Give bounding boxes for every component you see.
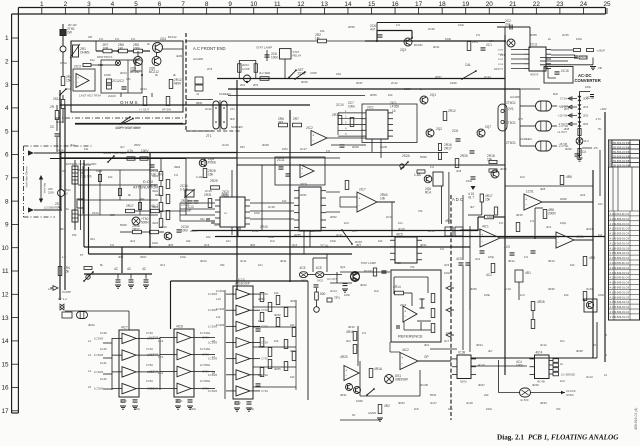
- svg-text:4R29: 4R29: [532, 383, 539, 387]
- svg-text:−: −: [404, 315, 406, 319]
- svg-text:4R11: 4R11: [280, 259, 287, 263]
- svg-text:4R31: 4R31: [340, 393, 347, 397]
- svg-text:1%: 1%: [499, 221, 504, 225]
- svg-text:2D8: 2D8: [564, 127, 570, 131]
- svg-text:2D2: 2D2: [240, 83, 246, 87]
- svg-text:4R7: 4R7: [356, 243, 362, 247]
- svg-text:2R51: 2R51: [300, 193, 307, 197]
- svg-text:HI: HI: [560, 362, 563, 366]
- svg-text:SCREEN: SCREEN: [520, 137, 532, 141]
- svg-text:100k: 100k: [133, 46, 140, 50]
- svg-text:4 119-513-01 C4: 4 119-513-01 C4: [610, 212, 630, 216]
- svg-text:4R35: 4R35: [470, 287, 477, 291]
- svg-text:1C4: 1C4: [158, 371, 164, 375]
- svg-text:2S1A: 2S1A: [60, 61, 67, 65]
- svg-text:2R30: 2R30: [460, 154, 468, 158]
- svg-text:1n: 1n: [420, 87, 424, 91]
- svg-text:9: 9: [5, 222, 9, 229]
- svg-text:4R32: 4R32: [398, 401, 405, 405]
- svg-text:4C2: 4C2: [475, 257, 481, 261]
- svg-text:1C39/8: 1C39/8: [208, 389, 217, 393]
- svg-text:4C20: 4C20: [586, 287, 593, 291]
- svg-text:10n: 10n: [352, 229, 357, 233]
- svg-text:1M: 1M: [598, 233, 603, 237]
- svg-text:A/D&DISP: A/D&DISP: [235, 282, 250, 286]
- svg-text:2C14: 2C14: [320, 244, 328, 248]
- svg-text:1%: 1%: [430, 165, 435, 169]
- svg-text:1C42: 1C42: [100, 377, 107, 381]
- svg-text:O H M S: O H M S: [120, 100, 138, 105]
- svg-text:2.2k 1%: 2.2k 1%: [80, 174, 92, 178]
- svg-text:2A5: 2A5: [48, 187, 53, 191]
- svg-text:4k99: 4k99: [174, 81, 181, 85]
- svg-text:+: +: [404, 309, 406, 313]
- svg-text:4R33: 4R33: [540, 401, 547, 405]
- svg-text:10k: 10k: [388, 93, 393, 97]
- svg-text:1C75A6: 1C75A6: [200, 363, 211, 367]
- svg-text:10R: 10R: [103, 46, 110, 50]
- svg-text:1C74A6: 1C74A6: [200, 347, 211, 351]
- svg-text:100n: 100n: [446, 331, 453, 335]
- svg-text:2R11: 2R11: [433, 45, 440, 49]
- svg-text:100n: 100n: [486, 407, 493, 411]
- svg-text:4R3: 4R3: [118, 255, 124, 259]
- svg-text:100p: 100p: [560, 221, 567, 225]
- svg-text:-2 OUT: -2 OUT: [558, 122, 567, 126]
- svg-text:4R8: 4R8: [540, 187, 546, 191]
- svg-text:1%: 1%: [362, 331, 367, 335]
- svg-text:4R10: 4R10: [200, 259, 207, 263]
- svg-text:63V: 63V: [240, 145, 245, 149]
- svg-text:C73A: C73A: [261, 357, 268, 361]
- svg-text:2R48: 2R48: [262, 143, 269, 147]
- svg-text:2W: 2W: [67, 30, 72, 34]
- svg-text:4IC8: 4IC8: [176, 325, 183, 329]
- svg-text:BC182: BC182: [364, 269, 373, 273]
- svg-text:100k: 100k: [96, 169, 103, 173]
- svg-text:5534: 5534: [430, 393, 437, 397]
- svg-text:+: +: [312, 134, 314, 138]
- svg-text:2R1: 2R1: [472, 40, 478, 44]
- svg-text:13: 13: [321, 1, 329, 8]
- svg-text:100n: 100n: [180, 255, 187, 259]
- svg-text:250V: 250V: [48, 190, 54, 194]
- svg-text:2R12: 2R12: [448, 109, 456, 113]
- svg-text:4C9: 4C9: [504, 245, 510, 249]
- svg-text:22: 22: [533, 1, 541, 8]
- svg-text:4C8: 4C8: [456, 169, 462, 173]
- svg-text:4 119-503-01 C4: 4 119-503-01 C4: [610, 227, 630, 231]
- svg-text:4C10: 4C10: [478, 363, 485, 367]
- svg-text:22k: 22k: [186, 239, 191, 243]
- svg-text:C74A: C74A: [146, 347, 153, 351]
- svg-text:4x 500: 4x 500: [520, 398, 529, 402]
- svg-text:4C1: 4C1: [160, 263, 166, 267]
- svg-text:4IC5: 4IC5: [396, 233, 403, 237]
- svg-text:1k0: 1k0: [520, 175, 525, 179]
- svg-text:L5: L5: [88, 385, 92, 389]
- svg-text:4: 4: [5, 105, 9, 112]
- svg-text:4R55: 4R55: [274, 367, 281, 371]
- svg-text:2W: 2W: [88, 35, 93, 39]
- svg-text:2D3: 2D3: [583, 97, 589, 101]
- svg-text:3: 3: [5, 82, 9, 89]
- svg-text:4: 4: [111, 1, 115, 8]
- svg-text:500R: 500R: [141, 220, 149, 224]
- svg-text:4R2: 4R2: [384, 404, 390, 408]
- svg-text:1C203: 1C203: [216, 323, 225, 327]
- svg-text:4C5: 4C5: [456, 257, 462, 261]
- svg-text:100n: 100n: [181, 228, 188, 232]
- svg-text:BC212: BC212: [168, 35, 177, 39]
- svg-text:2V1: 2V1: [500, 53, 505, 57]
- svg-text:2IC4: 2IC4: [400, 303, 407, 307]
- svg-text:SCREEN: SCREEN: [231, 125, 243, 129]
- svg-text:1k0: 1k0: [560, 379, 565, 383]
- svg-text:2R40: 2R40: [260, 225, 268, 229]
- svg-text:6: 6: [5, 152, 9, 159]
- svg-text:2T5O1: 2T5O1: [506, 121, 516, 125]
- svg-text:COPY VOLT-OHM: COPY VOLT-OHM: [115, 126, 140, 130]
- svg-text:2D5: 2D5: [583, 114, 589, 118]
- svg-text:100n: 100n: [134, 407, 141, 411]
- svg-text:1k0: 1k0: [310, 229, 315, 233]
- svg-text:1n0: 1n0: [520, 293, 525, 297]
- svg-text:2C25: 2C25: [562, 33, 569, 37]
- svg-text:13: 13: [1, 315, 9, 322]
- svg-text:+: +: [345, 369, 347, 373]
- svg-text:20: 20: [486, 1, 494, 8]
- svg-text:2R54: 2R54: [190, 229, 197, 233]
- svg-text:4k99: 4k99: [176, 54, 183, 58]
- svg-text:2Q3: 2Q3: [400, 48, 406, 52]
- svg-text:16: 16: [391, 1, 399, 8]
- svg-text:A.C FRONT END: A.C FRONT END: [193, 46, 226, 51]
- svg-text:4 169-543-01 C4: 4 169-543-01 C4: [610, 281, 630, 285]
- svg-text:100n: 100n: [152, 241, 159, 245]
- svg-text:3k3: 3k3: [278, 120, 283, 124]
- svg-text:4C19: 4C19: [504, 287, 511, 291]
- svg-text:1C201: 1C201: [216, 289, 225, 293]
- svg-text:1%: 1%: [326, 149, 331, 153]
- svg-text:4R54: 4R54: [290, 349, 297, 353]
- svg-text:REFERENCE: REFERENCE: [398, 334, 423, 339]
- svg-text:2Q2: 2Q2: [436, 127, 442, 131]
- svg-text:xxxx: xxxx: [498, 58, 504, 61]
- svg-text:41L7: 41L7: [151, 204, 158, 208]
- svg-text:1C202: 1C202: [216, 307, 225, 311]
- svg-text:4R21: 4R21: [420, 243, 427, 247]
- svg-text:100k: 100k: [484, 293, 491, 297]
- svg-text:0985/6W: 0985/6W: [395, 377, 408, 381]
- svg-text:xxxx: xxxx: [498, 63, 504, 66]
- svg-text:2R13: 2R13: [332, 113, 340, 117]
- svg-text:2R18: 2R18: [150, 183, 157, 187]
- svg-text:LIN: LIN: [126, 77, 130, 81]
- svg-text:4/OFF: 4/OFF: [566, 393, 574, 397]
- svg-text:10p: 10p: [90, 58, 95, 62]
- svg-text:4R13: 4R13: [548, 259, 555, 263]
- svg-text:10k: 10k: [290, 323, 295, 327]
- svg-text:2n2: 2n2: [505, 22, 511, 26]
- svg-text:10: 10: [250, 1, 258, 8]
- svg-text:-15 VB: -15 VB: [558, 142, 567, 146]
- svg-text:Volt-Van-Ohms: Volt-Van-Ohms: [25, 166, 29, 187]
- svg-text:+38V: +38V: [600, 107, 607, 111]
- svg-text:2D3: 2D3: [253, 83, 259, 87]
- svg-text:4C: 4C: [127, 267, 132, 271]
- svg-text:1C91: 1C91: [526, 190, 534, 194]
- svg-text:100R: 100R: [450, 81, 457, 85]
- svg-text:4 149-503-01 C4: 4 149-503-01 C4: [610, 237, 630, 241]
- svg-text:19: 19: [462, 1, 470, 8]
- svg-text:OHMS: OHMS: [80, 50, 90, 54]
- svg-text:2R53: 2R53: [428, 229, 435, 233]
- svg-text:+: +: [557, 235, 559, 239]
- svg-text:2S2B: 2S2B: [380, 145, 387, 149]
- svg-text:15: 15: [368, 1, 376, 8]
- svg-text:4 129-503-01 C4: 4 129-503-01 C4: [610, 241, 630, 245]
- svg-text:49k9: 49k9: [152, 221, 159, 225]
- svg-text:L10: L10: [216, 297, 221, 301]
- svg-text:49k9: 49k9: [152, 174, 159, 178]
- svg-text:C73A: C73A: [261, 308, 268, 312]
- svg-text:C75A: C75A: [146, 363, 153, 367]
- svg-text:100n: 100n: [254, 211, 261, 215]
- svg-text:−: −: [358, 204, 360, 208]
- svg-text:2R49: 2R49: [352, 145, 359, 149]
- svg-text:6: 6: [158, 1, 162, 8]
- svg-text:10n: 10n: [560, 339, 565, 343]
- svg-text:4 159-503-01 9/84: 4 159-503-01 9/84: [610, 164, 632, 168]
- svg-text:7: 7: [5, 175, 9, 182]
- svg-text:L8: L8: [212, 371, 216, 375]
- svg-text:10n: 10n: [226, 239, 231, 243]
- svg-text:2R19: 2R19: [160, 225, 167, 229]
- svg-text:16k: 16k: [487, 157, 493, 161]
- svg-text:15: 15: [1, 361, 9, 368]
- svg-text:−: −: [525, 203, 527, 207]
- svg-text:4R27: 4R27: [478, 383, 485, 387]
- svg-text:10n: 10n: [258, 263, 263, 267]
- svg-text:2C23: 2C23: [404, 87, 411, 91]
- svg-text:2IC1: 2IC1: [367, 106, 374, 110]
- svg-text:2C24: 2C24: [484, 75, 491, 79]
- svg-text:4R15: 4R15: [516, 213, 523, 217]
- svg-text:4R28: 4R28: [576, 349, 583, 353]
- svg-text:4 159-503-01 9/84: 4 159-503-01 9/84: [610, 146, 632, 150]
- svg-text:−: −: [481, 239, 483, 243]
- svg-text:2C15: 2C15: [205, 189, 212, 193]
- svg-text:100n: 100n: [466, 179, 473, 183]
- svg-text:+: +: [77, 76, 79, 80]
- svg-text:4R7: 4R7: [445, 219, 451, 223]
- svg-text:2L3: 2L3: [584, 139, 589, 143]
- svg-text:10k: 10k: [258, 319, 263, 323]
- svg-text:2R29: 2R29: [210, 179, 218, 183]
- svg-text:4R9: 4R9: [589, 256, 595, 260]
- svg-text:2T5O1: 2T5O1: [506, 101, 516, 105]
- svg-text:4 159-533-01 C4: 4 159-533-01 C4: [610, 315, 630, 319]
- svg-text:2R59: 2R59: [348, 25, 355, 29]
- svg-text:2C1: 2C1: [486, 43, 492, 47]
- svg-text:2L2 SER: 2L2 SER: [259, 71, 270, 75]
- svg-text:4R4: 4R4: [60, 227, 66, 231]
- svg-text:2-10p: 2-10p: [196, 175, 204, 179]
- svg-text:33n: 33n: [200, 217, 205, 221]
- svg-text:2R40: 2R40: [56, 120, 63, 124]
- svg-text:2C22: 2C22: [205, 107, 212, 111]
- svg-text:PCB 1, FLOATING ANALOG: PCB 1, FLOATING ANALOG: [528, 434, 619, 442]
- svg-text:1%: 1%: [476, 33, 481, 37]
- svg-text:2R46: 2R46: [301, 80, 308, 84]
- svg-text:L7: L7: [212, 355, 216, 359]
- svg-text:250V: 250V: [140, 255, 147, 259]
- svg-text:33k: 33k: [220, 263, 225, 267]
- svg-text:P6KE: P6KE: [208, 160, 216, 164]
- svg-text:10n: 10n: [448, 407, 453, 411]
- svg-text:4IC2: 4IC2: [402, 348, 409, 352]
- svg-text:2: 2: [5, 59, 9, 66]
- svg-text:xxxx: xxxx: [498, 68, 504, 71]
- svg-text:4 159-543-01 C4: 4 159-543-01 C4: [610, 300, 630, 304]
- svg-text:10k: 10k: [282, 199, 287, 203]
- svg-text:12: 12: [604, 373, 608, 377]
- svg-text:L6: L6: [212, 339, 216, 343]
- svg-text:HI 2kV: HI 2kV: [57, 149, 66, 153]
- svg-text:2S1C: 2S1C: [92, 211, 99, 215]
- svg-text:10k: 10k: [320, 29, 325, 33]
- svg-text:−: −: [401, 362, 403, 366]
- svg-text:100V: 100V: [214, 223, 221, 227]
- svg-text:4k7: 4k7: [488, 349, 493, 353]
- svg-text:8: 8: [205, 1, 209, 8]
- svg-text:1C39: 1C39: [100, 331, 107, 335]
- svg-text:L11: L11: [216, 315, 221, 319]
- svg-text:1C76A6: 1C76A6: [200, 379, 211, 383]
- svg-text:2C12: 2C12: [391, 81, 398, 85]
- svg-text:2R57: 2R57: [435, 75, 442, 79]
- svg-text:2R31: 2R31: [204, 193, 212, 197]
- svg-text:1: 1: [40, 1, 44, 8]
- svg-text:2k0: 2k0: [346, 339, 351, 343]
- svg-text:6k8: 6k8: [230, 117, 235, 121]
- svg-text:1M: 1M: [62, 169, 67, 173]
- svg-text:25: 25: [603, 1, 611, 8]
- svg-text:LF356: LF356: [390, 104, 399, 108]
- svg-text:1C41: 1C41: [100, 361, 107, 365]
- svg-text:CONVERTER: CONVERTER: [575, 78, 601, 83]
- svg-text:2x100: 2x100: [108, 94, 116, 98]
- svg-text:OP: OP: [424, 355, 429, 359]
- svg-text:500R: 500R: [120, 223, 127, 227]
- svg-text:2IC2: 2IC2: [306, 126, 313, 130]
- svg-text:4C20: 4C20: [120, 399, 127, 403]
- svg-text:-o BUF: -o BUF: [596, 49, 605, 53]
- svg-text:100n: 100n: [271, 55, 278, 59]
- svg-text:10k: 10k: [570, 263, 575, 267]
- svg-text:+: +: [358, 197, 360, 201]
- svg-text:4C3: 4C3: [546, 225, 552, 229]
- svg-text:2Q7: 2Q7: [485, 125, 491, 129]
- svg-text:4C5: 4C5: [316, 266, 322, 270]
- svg-text:+ I OUT: + I OUT: [139, 108, 149, 112]
- svg-text:250V: 250V: [134, 143, 141, 147]
- svg-text:4C18: 4C18: [466, 401, 473, 405]
- svg-text:4 139-543-01 C4: 4 139-543-01 C4: [610, 271, 630, 275]
- svg-text:2IC3: 2IC3: [74, 65, 81, 69]
- svg-text:4 159-503-01 9/84: 4 159-503-01 9/84: [610, 159, 632, 163]
- svg-text:17: 17: [1, 408, 9, 415]
- svg-text:C73A: C73A: [261, 324, 268, 328]
- svg-text:1M: 1M: [592, 343, 597, 347]
- svg-text:STAT LAMP: STAT LAMP: [256, 46, 272, 50]
- svg-text:4 139-503-01 C4: 4 139-503-01 C4: [610, 222, 630, 226]
- svg-text:2C18: 2C18: [268, 205, 275, 209]
- svg-text:2R55: 2R55: [294, 233, 301, 237]
- svg-text:4 159-503-01 9/84: 4 159-503-01 9/84: [610, 155, 632, 159]
- svg-text:2C16: 2C16: [222, 143, 229, 147]
- svg-text:9: 9: [228, 1, 232, 8]
- svg-text:4C5: 4C5: [444, 263, 450, 267]
- svg-text:15k: 15k: [485, 197, 491, 201]
- svg-text:2R 1W: 2R 1W: [68, 23, 77, 27]
- svg-text:4R36: 4R36: [548, 287, 555, 291]
- svg-text:4 159-543-01 C4: 4 159-543-01 C4: [610, 266, 630, 270]
- svg-text:4R53: 4R53: [258, 345, 265, 349]
- svg-text:1%: 1%: [99, 37, 104, 41]
- svg-text:15k: 15k: [64, 269, 70, 273]
- svg-text:2S2A: 2S2A: [402, 154, 411, 158]
- svg-text:GUARD: GUARD: [510, 95, 520, 99]
- svg-text:4 159-503-01 9/84: 4 159-503-01 9/84: [610, 141, 632, 145]
- svg-text:C73A: C73A: [261, 389, 268, 393]
- svg-text:C73A: C73A: [146, 331, 153, 335]
- svg-text:A D C: A D C: [452, 197, 463, 202]
- svg-text:4C22: 4C22: [234, 401, 241, 405]
- svg-text:1%: 1%: [440, 247, 445, 251]
- svg-text:−: −: [77, 81, 79, 85]
- svg-text:4n7: 4n7: [120, 145, 125, 149]
- svg-text:11: 11: [2, 268, 9, 275]
- svg-text:2T1: 2T1: [230, 107, 235, 111]
- svg-text:4IC1: 4IC1: [482, 225, 489, 229]
- svg-text:4 139-543-01 C4: 4 139-543-01 C4: [610, 305, 630, 309]
- svg-text:POP LAMP: POP LAMP: [361, 261, 376, 265]
- svg-text:2R52: 2R52: [330, 215, 337, 219]
- svg-text:LO 500V: LO 500V: [44, 206, 55, 210]
- svg-text:4S1: 4S1: [90, 237, 95, 241]
- svg-text:4n7: 4n7: [370, 27, 376, 31]
- svg-text:10k: 10k: [206, 235, 211, 239]
- svg-text:14: 14: [1, 338, 9, 345]
- svg-text:4R24: 4R24: [476, 343, 483, 347]
- svg-text:10k0: 10k0: [487, 215, 494, 219]
- svg-text:DPDT/DCS: DPDT/DCS: [97, 55, 112, 59]
- svg-text:2R20: 2R20: [84, 163, 91, 167]
- svg-text:4R50: 4R50: [258, 297, 265, 301]
- svg-text:1k5: 1k5: [414, 407, 419, 411]
- svg-text:4C13: 4C13: [586, 375, 593, 379]
- svg-text:4k7: 4k7: [470, 205, 475, 209]
- svg-text:10k: 10k: [380, 196, 386, 200]
- svg-text:CAL: CAL: [465, 63, 471, 67]
- svg-text:7: 7: [181, 1, 185, 8]
- svg-text:4IC7: 4IC7: [121, 326, 128, 330]
- svg-text:RELAY: RELAY: [293, 54, 302, 58]
- svg-text:4 129-543-01 C4: 4 129-543-01 C4: [610, 290, 630, 294]
- svg-text:1%: 1%: [115, 37, 120, 41]
